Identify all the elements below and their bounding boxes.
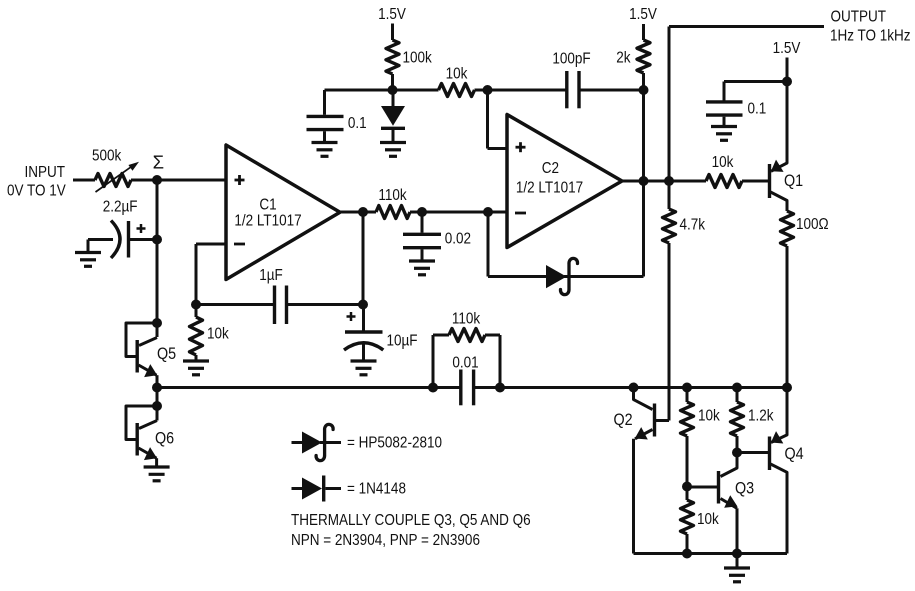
svg-text:THERMALLY COUPLE Q3, Q5 AND Q6: THERMALLY COUPLE Q3, Q5 AND Q6 bbox=[291, 512, 531, 529]
svg-text:110k: 110k bbox=[452, 311, 481, 328]
svg-text:100Ω: 100Ω bbox=[796, 216, 829, 233]
svg-text:Q1: Q1 bbox=[784, 172, 803, 190]
svg-text:1/2 LT1017: 1/2 LT1017 bbox=[234, 213, 301, 230]
svg-text:10k: 10k bbox=[697, 511, 719, 528]
svg-text:0.02: 0.02 bbox=[445, 231, 471, 248]
svg-text:2k: 2k bbox=[616, 50, 631, 67]
svg-text:Q4: Q4 bbox=[785, 445, 804, 463]
svg-text:10µF: 10µF bbox=[387, 333, 418, 350]
svg-text:4.7k: 4.7k bbox=[680, 217, 706, 234]
svg-text:100k: 100k bbox=[403, 50, 433, 67]
svg-text:0.01: 0.01 bbox=[452, 355, 478, 372]
svg-text:= 1N4148: = 1N4148 bbox=[347, 481, 406, 498]
svg-text:1Hz TO 1kHz: 1Hz TO 1kHz bbox=[830, 28, 911, 45]
svg-text:Q2: Q2 bbox=[614, 411, 633, 429]
svg-text:= HP5082-2810: = HP5082-2810 bbox=[347, 435, 442, 452]
svg-text:NPN = 2N3904, PNP = 2N3906: NPN = 2N3904, PNP = 2N3906 bbox=[291, 532, 480, 549]
svg-text:2.2µF: 2.2µF bbox=[103, 199, 138, 216]
svg-text:Q6: Q6 bbox=[155, 429, 174, 447]
svg-text:100pF: 100pF bbox=[552, 51, 590, 68]
svg-text:1.5V: 1.5V bbox=[773, 40, 801, 57]
svg-text:Σ: Σ bbox=[153, 151, 164, 172]
svg-text:1µF: 1µF bbox=[259, 267, 283, 284]
svg-text:1.5V: 1.5V bbox=[629, 6, 657, 23]
svg-text:110k: 110k bbox=[378, 187, 407, 204]
svg-text:0V TO 1V: 0V TO 1V bbox=[7, 183, 66, 200]
svg-text:C2: C2 bbox=[542, 160, 559, 177]
svg-text:Q5: Q5 bbox=[157, 345, 176, 363]
svg-text:1/2 LT1017: 1/2 LT1017 bbox=[516, 180, 583, 197]
svg-text:10k: 10k bbox=[446, 66, 468, 83]
svg-text:INPUT: INPUT bbox=[25, 164, 66, 181]
svg-text:1.2k: 1.2k bbox=[748, 408, 774, 425]
svg-text:10k: 10k bbox=[712, 154, 734, 171]
svg-text:C1: C1 bbox=[259, 197, 276, 214]
svg-text:OUTPUT: OUTPUT bbox=[831, 9, 887, 26]
svg-text:0.1: 0.1 bbox=[748, 101, 767, 118]
svg-text:1.5V: 1.5V bbox=[378, 6, 406, 23]
svg-text:0.1: 0.1 bbox=[348, 115, 367, 132]
svg-text:Q3: Q3 bbox=[735, 479, 754, 497]
svg-text:10k: 10k bbox=[698, 408, 720, 425]
svg-text:500k: 500k bbox=[92, 148, 122, 165]
svg-text:10k: 10k bbox=[207, 326, 229, 343]
